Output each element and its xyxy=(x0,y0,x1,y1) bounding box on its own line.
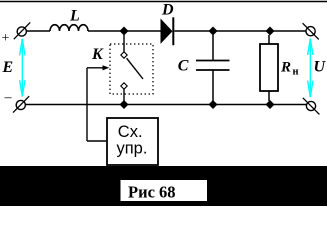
caption bar xyxy=(0,166,327,206)
junction node resistor bottom xyxy=(266,100,275,109)
svg-text:U: U xyxy=(314,59,327,76)
svg-text:Рис 68: Рис 68 xyxy=(128,183,176,202)
svg-text:C: C xyxy=(178,58,189,75)
terminal input minus xyxy=(13,96,29,112)
wire diode to output terminal xyxy=(174,30,306,32)
svg-text:R: R xyxy=(280,60,291,76)
inductor L xyxy=(50,25,88,31)
voltage arrow E xyxy=(20,39,25,97)
svg-text:упр.: упр. xyxy=(117,140,148,158)
svg-text:D: D xyxy=(161,2,174,19)
control wire with arrow into switch xyxy=(87,65,109,141)
terminal output plus xyxy=(303,23,319,39)
junction node capacitor bottom xyxy=(209,100,218,109)
terminal input plus xyxy=(14,22,30,39)
svg-text:Сх.: Сх. xyxy=(118,123,143,141)
wire inductor to diode xyxy=(88,30,161,32)
resistor Rн xyxy=(260,35,278,101)
diode D xyxy=(161,17,173,45)
bottom wire xyxy=(25,104,306,106)
junction node resistor top xyxy=(266,27,275,36)
terminal output minus xyxy=(303,98,320,115)
junction node top of switch xyxy=(120,27,129,36)
label Rн xyxy=(280,60,299,78)
svg-text:н: н xyxy=(293,67,299,78)
voltage arrow U xyxy=(308,39,313,97)
svg-text:+: + xyxy=(2,31,10,46)
switch K xyxy=(110,35,153,105)
wire terminal to inductor xyxy=(27,30,50,32)
caption Рис 68 xyxy=(121,180,208,202)
svg-text:K: K xyxy=(91,46,104,63)
junction node capacitor top xyxy=(209,27,218,36)
svg-text:L: L xyxy=(69,8,80,25)
capacitor C xyxy=(196,35,230,101)
svg-text:E: E xyxy=(2,59,14,76)
control unit box Сх. упр. xyxy=(107,118,158,165)
svg-text:–: – xyxy=(4,90,13,105)
junction node switch bottom xyxy=(120,100,129,109)
